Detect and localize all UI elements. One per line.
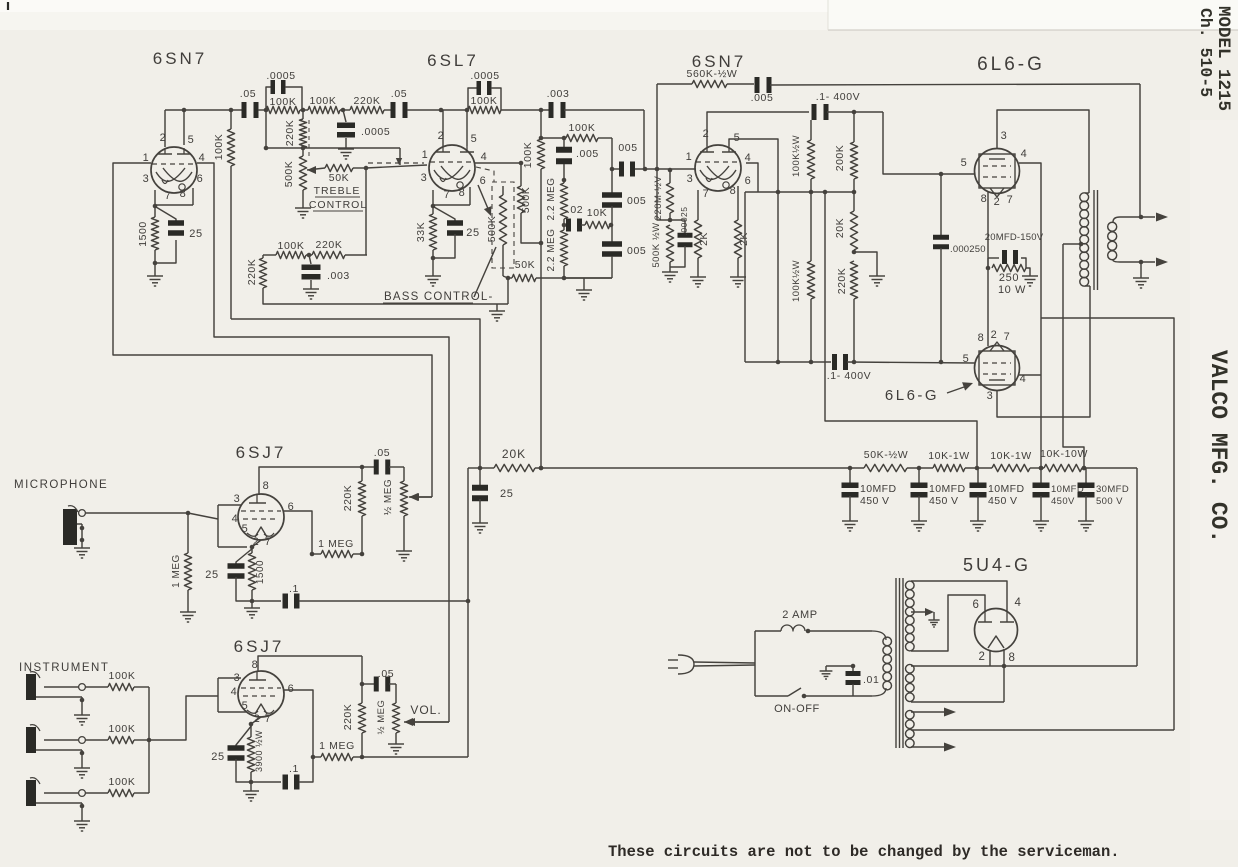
svg-text:2: 2: [438, 130, 445, 142]
svg-text:50K: 50K: [515, 259, 535, 271]
svg-text:8: 8: [459, 187, 466, 199]
svg-text:100K½W: 100K½W: [791, 260, 802, 302]
svg-text:.0005: .0005: [470, 70, 499, 82]
svg-text:500K ½W: 500K ½W: [651, 222, 662, 267]
svg-text:4: 4: [1015, 597, 1022, 609]
svg-text:10MFD: 10MFD: [860, 483, 896, 495]
svg-text:CONTROL: CONTROL: [309, 199, 367, 211]
svg-text:2: 2: [994, 196, 1001, 208]
svg-text:3: 3: [421, 172, 428, 184]
svg-text:8: 8: [730, 185, 737, 197]
svg-text:10K-1W: 10K-1W: [928, 450, 970, 462]
svg-text:100K½W: 100K½W: [791, 135, 802, 177]
svg-text:2: 2: [979, 651, 986, 663]
svg-text:.1: .1: [289, 763, 299, 775]
svg-text:450V: 450V: [1051, 496, 1075, 507]
svg-text:10K: 10K: [587, 207, 607, 219]
svg-text:1: 1: [686, 151, 693, 163]
svg-text:3900 ½W: 3900 ½W: [254, 730, 264, 772]
svg-text:These circuits are not to be c: These circuits are not to be changed by …: [608, 843, 1120, 861]
svg-text:220M-½V: 220M-½V: [653, 175, 664, 220]
svg-text:10 W: 10 W: [998, 284, 1026, 296]
svg-text:.005: .005: [576, 148, 599, 160]
svg-text:30MFD: 30MFD: [1096, 484, 1129, 495]
svg-text:20MFD-150V: 20MFD-150V: [985, 232, 1044, 243]
svg-text:2 AMP: 2 AMP: [782, 609, 817, 621]
svg-text:7: 7: [703, 188, 710, 200]
svg-text:6: 6: [480, 175, 487, 187]
svg-text:500K: 500K: [283, 161, 295, 188]
svg-text:7: 7: [265, 713, 272, 725]
svg-text:5: 5: [242, 700, 249, 712]
svg-text:50K-½W: 50K-½W: [864, 449, 908, 461]
svg-text:3: 3: [1001, 130, 1008, 142]
svg-text:100K: 100K: [109, 776, 136, 788]
svg-text:.005: .005: [751, 92, 774, 104]
svg-text:100K: 100K: [213, 134, 225, 161]
svg-text:.1: .1: [289, 583, 299, 595]
svg-text:5: 5: [471, 133, 478, 145]
svg-text:7: 7: [444, 189, 451, 201]
svg-text:8: 8: [1009, 652, 1016, 664]
svg-text:3: 3: [987, 390, 994, 402]
svg-text:7: 7: [1004, 331, 1011, 343]
svg-text:6SL7: 6SL7: [427, 51, 479, 70]
svg-text:7: 7: [265, 536, 272, 548]
svg-text:10K-10W: 10K-10W: [1040, 448, 1088, 460]
svg-text:100K: 100K: [522, 142, 534, 169]
svg-text:6L6-G: 6L6-G: [885, 387, 939, 404]
svg-text:4: 4: [231, 686, 238, 698]
svg-text:8: 8: [263, 480, 270, 492]
svg-text:.02: .02: [567, 204, 583, 216]
svg-text:VALCO MFG. CO.: VALCO MFG. CO.: [1205, 350, 1231, 543]
svg-text:4: 4: [481, 151, 488, 163]
svg-text:4: 4: [1021, 148, 1028, 160]
svg-text:.000250: .000250: [950, 244, 986, 255]
svg-text:1 MEG: 1 MEG: [318, 538, 354, 550]
svg-text:2: 2: [160, 132, 167, 144]
svg-text:10MFD: 10MFD: [988, 483, 1024, 495]
svg-text:2.2 MEG: 2.2 MEG: [546, 178, 557, 221]
svg-text:2.2 MEG: 2.2 MEG: [546, 229, 557, 272]
svg-text:.0005: .0005: [266, 70, 295, 82]
svg-text:6L6-G: 6L6-G: [977, 54, 1045, 75]
svg-text:.1- 400V: .1- 400V: [816, 91, 861, 103]
svg-text:220K: 220K: [316, 239, 343, 251]
svg-text:.01: .01: [863, 674, 879, 686]
svg-text:33K: 33K: [415, 222, 427, 242]
svg-text:6: 6: [197, 173, 204, 185]
svg-text:3: 3: [234, 493, 241, 505]
svg-text:220K: 220K: [284, 120, 296, 147]
svg-text:005: 005: [618, 142, 637, 154]
svg-text:10MFD: 10MFD: [929, 483, 965, 495]
svg-text:TREBLE: TREBLE: [314, 185, 361, 197]
svg-text:.05: .05: [374, 447, 390, 459]
svg-text:220K: 220K: [342, 704, 354, 731]
svg-text:3: 3: [687, 173, 694, 185]
svg-text:220K: 220K: [246, 259, 258, 286]
svg-text:1500: 1500: [137, 221, 149, 246]
svg-text:250: 250: [999, 272, 1019, 284]
svg-text:½ MEG: ½ MEG: [383, 479, 394, 515]
svg-text:BASS CONTROL-: BASS CONTROL-: [384, 291, 494, 303]
svg-text:450 V: 450 V: [860, 495, 889, 507]
svg-text:200K: 200K: [834, 145, 846, 172]
svg-text:50K: 50K: [329, 172, 349, 184]
svg-text:6SN7: 6SN7: [153, 49, 208, 68]
svg-text:560K-½W: 560K-½W: [687, 68, 738, 80]
svg-text:5: 5: [961, 157, 968, 169]
svg-text:20K: 20K: [834, 218, 846, 238]
svg-text:7: 7: [165, 190, 172, 202]
svg-text:6: 6: [973, 599, 980, 611]
svg-text:500 V: 500 V: [1096, 496, 1123, 507]
svg-text:450 V: 450 V: [988, 495, 1017, 507]
svg-text:4: 4: [199, 152, 206, 164]
svg-text:.1- 400V: .1- 400V: [827, 370, 872, 382]
svg-text:500K: 500K: [520, 187, 532, 214]
svg-text:.0005: .0005: [361, 126, 390, 138]
svg-text:.003: .003: [547, 88, 570, 100]
svg-text:.05: .05: [378, 668, 394, 680]
svg-text:1: 1: [143, 152, 150, 164]
svg-text:2K: 2K: [738, 232, 750, 246]
svg-text:100K: 100K: [109, 723, 136, 735]
svg-text:5U4-G: 5U4-G: [963, 555, 1031, 575]
svg-text:6: 6: [288, 683, 295, 695]
svg-text:.05: .05: [391, 88, 407, 100]
svg-text:25: 25: [466, 227, 479, 239]
svg-text:Ch. 510-5: Ch. 510-5: [1196, 8, 1215, 97]
svg-text:25: 25: [205, 569, 218, 581]
svg-text:100K: 100K: [471, 95, 498, 107]
svg-text:2K: 2K: [698, 232, 710, 246]
svg-text:100K: 100K: [278, 240, 305, 252]
svg-text:8: 8: [978, 332, 985, 344]
svg-text:VOL.: VOL.: [410, 703, 441, 717]
svg-text:MODEL 1215: MODEL 1215: [1213, 6, 1233, 111]
svg-text:4: 4: [745, 152, 752, 164]
svg-text:2: 2: [703, 128, 710, 140]
svg-text:005: 005: [627, 245, 646, 257]
svg-text:6SJ7: 6SJ7: [236, 443, 287, 462]
svg-text:20K: 20K: [502, 447, 526, 461]
svg-text:220K: 220K: [342, 485, 354, 512]
svg-text:100K: 100K: [310, 95, 337, 107]
svg-text:5: 5: [242, 523, 249, 535]
svg-text:005: 005: [627, 195, 646, 207]
svg-text:500K: 500K: [486, 216, 498, 243]
svg-text:100K: 100K: [569, 122, 596, 134]
svg-text:450 V: 450 V: [929, 495, 958, 507]
svg-text:25: 25: [211, 751, 224, 763]
svg-text:MICROPHONE: MICROPHONE: [14, 479, 108, 491]
svg-text:7: 7: [1007, 194, 1014, 206]
svg-text:1: 1: [422, 149, 429, 161]
svg-text:1 MEG: 1 MEG: [171, 554, 182, 588]
svg-text:ON-OFF: ON-OFF: [774, 703, 820, 715]
svg-text:.00025: .00025: [679, 207, 689, 236]
svg-text:1 MEG: 1 MEG: [319, 740, 355, 752]
svg-text:5: 5: [734, 132, 741, 144]
svg-text:10K-1W: 10K-1W: [990, 450, 1032, 462]
svg-text:6SJ7: 6SJ7: [234, 637, 285, 656]
svg-text:.003: .003: [327, 270, 350, 282]
svg-text:8: 8: [981, 193, 988, 205]
svg-text:.05: .05: [240, 88, 256, 100]
svg-text:220K: 220K: [354, 95, 381, 107]
svg-text:4: 4: [232, 513, 239, 525]
svg-text:6: 6: [745, 175, 752, 187]
svg-text:100K: 100K: [270, 96, 297, 108]
svg-text:25: 25: [189, 228, 202, 240]
svg-text:5: 5: [188, 134, 195, 146]
svg-text:1500: 1500: [255, 560, 266, 584]
svg-text:8: 8: [180, 188, 187, 200]
svg-text:½ MEG: ½ MEG: [376, 700, 387, 735]
svg-text:220K: 220K: [836, 268, 848, 295]
svg-text:3: 3: [143, 173, 150, 185]
svg-text:2: 2: [991, 329, 998, 341]
svg-text:25: 25: [500, 488, 513, 500]
svg-text:100K: 100K: [109, 670, 136, 682]
